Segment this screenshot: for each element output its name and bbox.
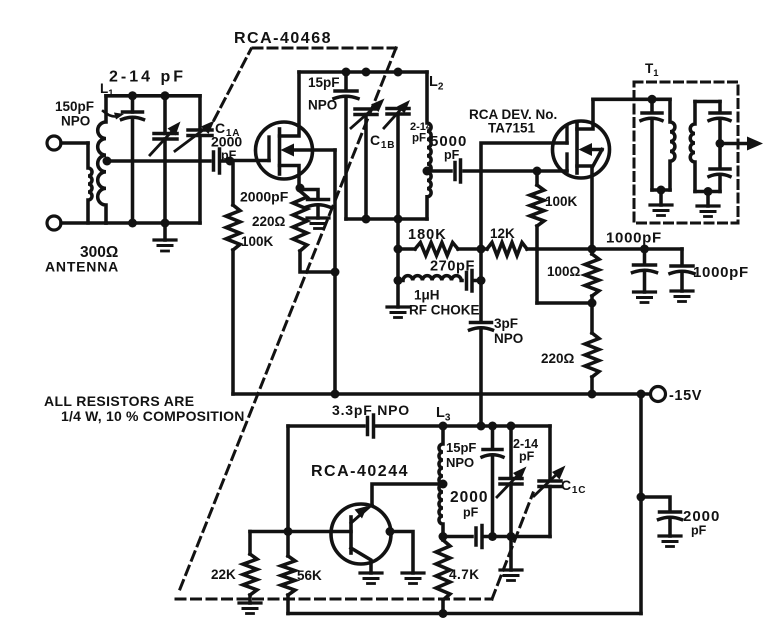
- label 3pF NPO: [494, 316, 523, 346]
- label RCA DEV. No. TA7151: [469, 107, 557, 136]
- node gate2 divider: [477, 245, 486, 254]
- node 15pF osc top: [488, 422, 497, 431]
- C1C arrow: [534, 466, 566, 497]
- label RCA-40244: [311, 463, 409, 480]
- label C1B: [370, 132, 395, 151]
- label 220 ohm supply: [541, 351, 575, 366]
- tank1 bottom rail: [106, 221, 200, 225]
- trimmer capacitor 2-14pF tank2: [387, 109, 409, 220]
- svg-text:22K: 22K: [211, 567, 236, 582]
- svg-text:1000pF: 1000pF: [606, 230, 662, 247]
- label 100K gate bias: [241, 234, 274, 249]
- label 5000 pF: [430, 133, 467, 162]
- capacitor 3pF NPO injection: [470, 323, 493, 427]
- ground BJT collector: [360, 573, 382, 584]
- node MOSFET1 gate: [226, 157, 235, 166]
- ground source bypass: [307, 218, 329, 229]
- svg-text:100K: 100K: [545, 194, 578, 209]
- wire terminal-bottom to coil / tank ground rail: [61, 221, 106, 225]
- node mixer source: [588, 245, 597, 254]
- MOSFET1 channel bar: [278, 129, 282, 174]
- svg-text:T1: T1: [645, 61, 659, 79]
- gang dashed long diagonal: [180, 48, 396, 589]
- MOSFET1 substrate arrow: [281, 144, 336, 157]
- resistor 100 ohm: [585, 249, 599, 333]
- C1B arrow: [351, 99, 385, 129]
- node 180K left: [394, 245, 403, 254]
- op amp — MOSFET U1 RCA-40468 circle: [256, 122, 313, 179]
- T1 secondary bottom link: [695, 190, 720, 194]
- label L2: [429, 74, 444, 93]
- node 270pF right: [477, 276, 486, 285]
- node trimmer osc bottom: [507, 532, 516, 541]
- transformer T1 dashed box: [634, 82, 738, 223]
- node gate1 / 100K: [533, 167, 542, 176]
- svg-text:NPO: NPO: [494, 331, 523, 346]
- label 300-ohm antenna: [45, 244, 119, 275]
- wire osc left leg: [286, 426, 290, 532]
- wire series cap to gate node: [222, 159, 230, 163]
- MOSFET1 drain tap: [280, 72, 300, 136]
- wire gate node to MOSFET1 gate: [230, 159, 269, 163]
- svg-text:56K: 56K: [297, 568, 322, 583]
- svg-text:L2: L2: [429, 74, 444, 93]
- T1 primary bottom link: [652, 188, 670, 192]
- node tank2 bottom trimmer: [394, 215, 403, 224]
- transistor Q2 — MOSFET TA7151 circle: [553, 121, 610, 178]
- svg-text:4.7K: 4.7K: [449, 567, 480, 582]
- ground osc tank: [500, 570, 522, 581]
- label 270pF: [430, 259, 475, 275]
- tank2 top rail: [299, 70, 427, 74]
- inductor L3: [439, 426, 443, 537]
- label 2000 pF (series cap): [211, 134, 242, 163]
- tank1 ground stem: [163, 223, 167, 240]
- svg-text:NPO: NPO: [61, 114, 90, 129]
- trimmer1 arrow: [150, 122, 181, 156]
- node T1 secondary bottom: [704, 187, 713, 196]
- ground T1 primary: [650, 205, 672, 216]
- svg-text:2000: 2000: [450, 489, 488, 506]
- label 100K mixer: [545, 194, 578, 209]
- label 1uH RF CHOKE: [409, 288, 480, 318]
- ground 2000pF right: [659, 536, 681, 547]
- wire L1 tap to series cap: [107, 159, 210, 163]
- ground below tank2: [387, 307, 409, 318]
- label 2000 pF osc: [450, 489, 488, 520]
- node L3 top: [439, 422, 448, 431]
- node tank2 top C1B: [362, 68, 371, 77]
- label 22K: [211, 567, 236, 582]
- ground T1 secondary: [697, 206, 719, 217]
- wire MOSFET2 drain to T1: [593, 98, 652, 102]
- svg-text:L3: L3: [436, 405, 451, 424]
- node 2000pF branch: [637, 493, 646, 502]
- resistor 22K: [243, 532, 257, 604]
- svg-text:1μH: 1μH: [414, 288, 440, 303]
- trimmer capacitor 2-14pF osc: [500, 426, 522, 537]
- node choke left: [394, 276, 403, 285]
- capacitor 5000pF series: [455, 160, 461, 182]
- node MOSFET1 source: [296, 184, 305, 193]
- label 12K: [490, 226, 515, 241]
- capacitor T1 primary: [641, 99, 662, 190]
- trimmer2 arrow: [384, 100, 410, 128]
- inductor T1 primary: [670, 99, 675, 190]
- label 1000pF first: [606, 230, 662, 247]
- input terminal top circle: [47, 136, 61, 150]
- node T1 primary bottom: [657, 186, 666, 195]
- label 1000pF second: [693, 264, 749, 281]
- capacitor 1000pF first: [633, 249, 657, 292]
- svg-text:C1C: C1C: [561, 477, 586, 496]
- svg-text:15pF: 15pF: [308, 75, 340, 90]
- oscillator top rail right part: [376, 424, 550, 428]
- label 150pF NPO with pointer: [55, 99, 94, 129]
- gang dashed riser to C1C: [492, 493, 533, 599]
- C1A arrow: [175, 121, 215, 152]
- svg-text:NPO: NPO: [308, 98, 337, 113]
- antenna primary coil: [88, 143, 92, 223]
- MOSFET2 gate bar lower: [565, 154, 568, 171]
- node tank1 top 150pF: [128, 91, 137, 100]
- node 220 ohm on rail: [588, 390, 597, 399]
- capacitor 15pF NPO osc: [482, 426, 503, 537]
- tank2 bottom rail: [346, 217, 427, 221]
- capacitor 15pF NPO tank2: [334, 72, 358, 219]
- capacitor T1 secondary lower: [709, 144, 730, 192]
- capacitor 2000pF decoupling right: [641, 497, 682, 536]
- wire bias tap to 100 ohm bottom: [537, 301, 592, 305]
- wire substrate down to supply rail: [333, 150, 337, 394]
- wire right vertical: [639, 394, 643, 614]
- node 100 ohm bottom: [588, 299, 597, 308]
- capacitor 270pF: [467, 271, 482, 292]
- wire source node to decoupling caps: [537, 247, 682, 251]
- BJT collector down to ground: [351, 548, 371, 573]
- MOSFET1 gate bar: [267, 137, 270, 161]
- capacitor 2000pF series (gate coupling): [214, 149, 220, 173]
- node tank1 bottom 150pF: [128, 219, 137, 228]
- svg-text:12K: 12K: [490, 226, 515, 241]
- tank1 top rail: [106, 94, 200, 98]
- node BJT right shield: [386, 527, 395, 536]
- MOSFET2 channel bar: [575, 123, 579, 173]
- node tank1 bottom trimmer/ground: [161, 219, 170, 228]
- inductor L2: [427, 72, 431, 219]
- resistor 4.7K: [436, 537, 450, 614]
- node L1 tap: [103, 157, 112, 166]
- ground tank1: [154, 240, 176, 251]
- MOSFET2 gate bar upper: [565, 127, 568, 143]
- label 2-14 pF tank2: [410, 121, 433, 145]
- capacitor 3.3pF NPO feedback: [368, 415, 374, 437]
- svg-text:pF: pF: [444, 148, 460, 162]
- svg-text:2-14 pF: 2-14 pF: [109, 69, 186, 86]
- T1 primary ground stem: [659, 190, 663, 205]
- label 4.7K: [449, 567, 480, 582]
- label C1A: [215, 120, 240, 139]
- label T1: [645, 61, 659, 79]
- svg-text:RCA-40468: RCA-40468: [234, 30, 332, 47]
- wire base line: [250, 530, 351, 534]
- resistor 220 ohm supply: [585, 333, 599, 394]
- svg-text:2000: 2000: [211, 134, 242, 150]
- label all resistors note: [44, 393, 245, 424]
- wire gate2 from bias divider: [481, 143, 567, 322]
- node tank1 top trimmer: [161, 91, 170, 100]
- osc bottom row right part: [485, 535, 550, 539]
- wire source node to bypass cap: [300, 190, 318, 200]
- inductor T1 secondary: [690, 102, 695, 192]
- svg-text:ANTENNA: ANTENNA: [45, 259, 119, 275]
- output arrow: [720, 137, 763, 151]
- MOSFET2 source tap: [577, 166, 592, 249]
- svg-text:ALL RESISTORS ARE: ALL RESISTORS ARE: [44, 393, 194, 409]
- transistor Q1 RCA-40244 circle: [331, 504, 391, 564]
- svg-text:TA7151: TA7151: [488, 121, 536, 136]
- vertical below tank2 to ground: [396, 219, 400, 307]
- label 15pF NPO tank2: [308, 75, 340, 113]
- svg-text:pF: pF: [412, 133, 426, 145]
- label 2-14pF tank1: [109, 69, 186, 86]
- wire L2 tap to 5000pF: [427, 169, 451, 173]
- node right vertical on rail: [637, 390, 646, 399]
- wire terminal-top to antenna coil: [61, 141, 88, 145]
- label -15V: [669, 388, 702, 404]
- osc tank bottom row with 2000pF: [443, 535, 472, 539]
- label RCA-40468: [234, 30, 332, 47]
- label 56K: [297, 568, 322, 583]
- node 220 ohm to substrate line: [331, 268, 340, 277]
- pointer from 150pF label to cap: [103, 111, 124, 120]
- MOSFET1 source tap: [280, 166, 300, 189]
- capacitor 2000pF source bypass: [307, 200, 330, 219]
- node T1 output tap: [716, 139, 725, 148]
- resistor 100K mixer gate: [530, 171, 544, 303]
- resistor 180K: [398, 243, 481, 256]
- node 1000pF first: [640, 245, 649, 254]
- wire 5000pF to MOSFET2 gate1: [464, 169, 567, 173]
- label 220 ohm: [252, 214, 286, 229]
- svg-text:3pF: 3pF: [494, 316, 518, 331]
- node 4.7K bottom: [439, 609, 448, 618]
- supply rail -15V: [233, 392, 650, 396]
- svg-text:220Ω: 220Ω: [252, 214, 286, 229]
- svg-text:1/4 W, 10 % COMPOSITION: 1/4 W, 10 % COMPOSITION: [61, 408, 245, 424]
- capacitor 1000pF second: [670, 249, 694, 291]
- node trimmer osc top: [507, 422, 516, 431]
- capacitor 150pF branch: [122, 96, 144, 223]
- gang dashed pointer C1A: [214, 49, 251, 120]
- BJT base bar: [349, 517, 353, 553]
- wire emitter to L3 tap: [372, 484, 443, 505]
- osc ground stem: [509, 537, 513, 571]
- ground 1000pF first: [634, 292, 656, 303]
- node T1 primary top: [648, 95, 657, 104]
- ground 1000pF second: [671, 291, 693, 302]
- svg-text:pF: pF: [519, 450, 535, 464]
- inductor 1uH RF choke: [398, 276, 462, 281]
- svg-text:2000: 2000: [683, 508, 720, 525]
- svg-text:100Ω: 100Ω: [547, 264, 581, 279]
- capacitor T1 secondary upper: [709, 102, 730, 144]
- svg-text:RCA-40244: RCA-40244: [311, 463, 409, 480]
- MOSFET2 substrate arrow: [579, 143, 603, 166]
- trimmer3 arrow: [497, 467, 527, 498]
- ground BJT shield: [402, 573, 424, 584]
- gang dashed bottom line: [176, 598, 492, 601]
- wire T1 primary top link: [652, 98, 670, 102]
- svg-text:pF: pF: [463, 506, 479, 520]
- input terminal bottom circle: [47, 216, 61, 230]
- label 15pF NPO osc: [446, 440, 476, 470]
- capacitor 2000pF osc series: [476, 526, 482, 548]
- terminal -15V circle: [651, 387, 666, 402]
- svg-text:-15V: -15V: [669, 388, 702, 404]
- node L3 tap: [439, 480, 448, 489]
- node 3pF branch end: [477, 422, 486, 431]
- trimmer capacitor 2-14pF tank1: [154, 96, 177, 223]
- svg-text:15pF: 15pF: [446, 440, 476, 455]
- T1 secondary top link: [695, 100, 720, 104]
- resistor 100K gate bias: [226, 161, 240, 394]
- variable capacitor C1A: [188, 96, 212, 223]
- svg-text:2000pF: 2000pF: [240, 189, 289, 205]
- variable capacitor C1B: [355, 109, 377, 219]
- svg-text:3.3pF NPO: 3.3pF NPO: [332, 402, 410, 418]
- node tank2 top trimmer: [394, 68, 403, 77]
- svg-text:NPO: NPO: [446, 455, 474, 470]
- node L2 tap: [423, 167, 432, 176]
- resistor 56K: [281, 532, 295, 614]
- svg-text:270pF: 270pF: [430, 259, 475, 275]
- inductor L1: [98, 96, 106, 223]
- svg-text:220Ω: 220Ω: [541, 351, 575, 366]
- node L3 bottom: [439, 532, 448, 541]
- T1 secondary ground stem: [706, 192, 710, 207]
- label 180K: [408, 227, 447, 243]
- label 2000pF bypass: [240, 189, 289, 205]
- svg-text:100K: 100K: [241, 234, 274, 249]
- svg-text:150pF: 150pF: [55, 99, 94, 114]
- gang dashed top line: [253, 47, 396, 50]
- bottom return rail: [288, 612, 641, 616]
- label 3.3pF NPO: [332, 402, 410, 418]
- node tank2 top 15pF: [342, 68, 351, 77]
- svg-text:1000pF: 1000pF: [693, 264, 749, 281]
- resistor 220 ohm source: [293, 191, 335, 272]
- ground 22K: [239, 603, 261, 614]
- label L3: [436, 405, 451, 424]
- label 2-14 pF osc: [513, 437, 538, 464]
- BJT emitter up with arrow: [351, 505, 372, 524]
- node 15pF osc bottom: [488, 532, 497, 541]
- svg-text:180K: 180K: [408, 227, 447, 243]
- node oscillator base: [284, 527, 293, 536]
- node substrate line on rail: [331, 390, 340, 399]
- label 2000 pF right: [683, 508, 720, 538]
- oscillator top rail with 3.3pF: [288, 424, 364, 428]
- label 100 ohm: [547, 264, 581, 279]
- variable capacitor C1C: [539, 426, 561, 537]
- MOSFET2 drain tap: [577, 99, 593, 129]
- label C1C: [561, 477, 586, 496]
- svg-text:RF CHOKE: RF CHOKE: [409, 303, 480, 318]
- resistor 12K: [481, 243, 537, 256]
- label L1: [100, 81, 114, 99]
- svg-text:C1B: C1B: [370, 132, 395, 151]
- node tank2 bottom C1B: [362, 215, 371, 224]
- svg-text:pF: pF: [691, 524, 707, 538]
- wire shield lead to ground: [390, 532, 413, 574]
